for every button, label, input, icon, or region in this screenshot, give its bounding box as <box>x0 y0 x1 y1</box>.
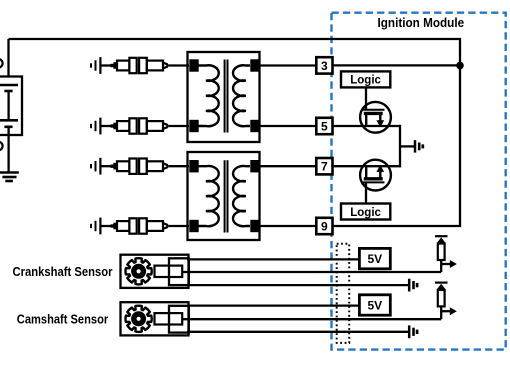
wire top rail <box>9 39 461 65</box>
module ground symbol <box>414 140 417 152</box>
wire spark plug 1 to ignition coil <box>169 64 189 66</box>
resistor R1 lead to signal wire <box>440 260 442 272</box>
spark plug 3 ground <box>90 164 92 168</box>
wire common rail to ground tap <box>400 145 415 147</box>
svg-text:5V: 5V <box>367 298 382 312</box>
svg-text:9: 9 <box>321 219 328 233</box>
pin 5 terminal box <box>316 118 332 134</box>
svg-text:3: 3 <box>321 59 328 73</box>
pin 7 terminal box <box>316 158 332 174</box>
battery ground symbol <box>0 171 19 174</box>
resistor R2 supply bar <box>435 282 448 284</box>
wire spark plug 3 to ignition coil <box>169 165 189 167</box>
spark plug 1 body <box>111 64 114 67</box>
transistor Q2 gate lead <box>365 182 367 204</box>
ignition coil T2 terminal bottom-right <box>250 220 259 232</box>
ignition coil T1 terminal bottom-right <box>250 120 259 132</box>
svg-text:Logic: Logic <box>350 75 381 87</box>
logic block upper <box>341 71 390 87</box>
ignition coil T1 core <box>224 60 226 133</box>
5V supply box camshaft <box>359 295 390 315</box>
transistor Q1 <box>360 102 391 133</box>
camshaft sensor connector blade <box>155 313 183 324</box>
ignition coil T2 terminal top-right <box>250 160 259 172</box>
5V supply box crankshaft <box>359 248 390 268</box>
wire coil T1 secondary bottom to pin 5 <box>260 125 317 127</box>
ignition coil T2 terminal bottom-left <box>189 220 198 232</box>
wire battery positive to top rail <box>7 39 9 77</box>
wire Q1 to Q2 common emitter rail <box>399 125 401 168</box>
resistor R1 supply arrow <box>437 237 446 243</box>
camshaft sensor case <box>121 302 189 335</box>
crankshaft sensor connector shell <box>169 258 189 285</box>
wire camshaft sensor signal <box>182 318 441 320</box>
transistor Q1 gate lead <box>365 87 367 110</box>
spark plug 4 body <box>111 224 114 227</box>
resistor R2 supply arrow <box>437 284 446 290</box>
wire right rail down to pin 9 <box>333 65 461 226</box>
ignition coil T2 secondary winding <box>233 166 250 226</box>
wire crankshaft sensor supply <box>187 258 359 260</box>
junction node at top rail <box>456 62 464 70</box>
crankshaft sensor connector blade <box>155 266 183 277</box>
logic block lower <box>341 204 390 220</box>
battery negative terminal circle <box>0 142 3 151</box>
pin 9 terminal box <box>316 218 332 234</box>
spark plug 2 ground <box>90 124 92 128</box>
battery positive terminal circle <box>0 59 3 68</box>
battery cell 1 long plate <box>0 84 18 87</box>
battery cell 2 long plate <box>0 119 18 122</box>
wire battery negative to ground <box>7 135 9 173</box>
resistor R2 lead to signal wire <box>440 306 442 319</box>
wire pin 5 to transistor Q1 <box>333 125 401 127</box>
wire camshaft sensor return <box>187 331 409 333</box>
ignition coil T2 case <box>188 152 260 240</box>
camshaft sensor return ground symbol <box>408 325 411 338</box>
battery cell 2 short plate <box>4 126 12 129</box>
wire coil T1 secondary top to pin 3 <box>260 64 317 66</box>
svg-text:Ignition Module: Ignition Module <box>378 15 465 30</box>
camshaft sensor connector shell <box>169 306 189 333</box>
svg-text:5V: 5V <box>367 252 382 266</box>
wire coil T2 secondary bottom to pin 9 <box>260 225 317 227</box>
battery cell 1 short plate <box>4 90 12 93</box>
ignition coil T1 terminal bottom-left <box>189 120 198 132</box>
svg-text:Camshaft Sensor: Camshaft Sensor <box>17 311 108 326</box>
ignition coil T2 primary winding <box>198 166 219 226</box>
wire pin 3 to right rail <box>333 64 461 66</box>
svg-text:7: 7 <box>321 160 328 174</box>
resistor R1 supply bar <box>435 235 448 237</box>
wire crankshaft sensor return <box>187 284 409 286</box>
crankshaft sensor return ground symbol <box>408 279 411 292</box>
ignition coil T2 core <box>224 160 226 232</box>
wire spark plug 4 to ignition coil <box>169 225 189 227</box>
wire spark plug 2 to ignition coil <box>169 125 189 127</box>
signal output arrow 1 <box>441 263 450 265</box>
wire coil T2 secondary top to pin 7 <box>260 165 317 167</box>
ignition coil T1 terminal top-right <box>250 59 259 71</box>
spark plug 3 body <box>111 165 114 168</box>
ignition coil T1 case <box>188 52 260 142</box>
ignition coil T2 terminal top-left <box>189 160 198 172</box>
svg-text:Crankshaft Sensor: Crankshaft Sensor <box>13 264 113 279</box>
crankshaft sensor case <box>121 255 189 288</box>
wire crankshaft sensor signal <box>182 271 441 273</box>
pin 3 terminal box <box>316 57 332 73</box>
svg-text:Logic: Logic <box>350 207 381 219</box>
crankshaft sensor reluctor gear <box>126 258 152 284</box>
camshaft sensor reluctor gear <box>126 306 152 332</box>
resistor R1 <box>438 244 445 261</box>
battery case box <box>0 77 22 136</box>
ignition module boundary box <box>332 13 506 350</box>
ignition coil T1 primary winding <box>198 65 219 126</box>
transistor Q2 <box>360 160 391 191</box>
wire camshaft sensor supply <box>187 304 359 306</box>
battery cell 2 stem <box>7 127 9 135</box>
spark plug 2 body <box>111 124 114 127</box>
svg-text:5: 5 <box>321 119 328 133</box>
resistor R2 <box>438 290 445 307</box>
ignition coil T1 terminal top-left <box>189 59 198 71</box>
spark plug 1 ground <box>90 63 92 67</box>
spark plug 4 ground <box>90 224 92 228</box>
battery cell 1 stem <box>7 91 9 120</box>
sensor harness pass-through connector (dotted) <box>337 244 350 343</box>
signal output arrow 2 <box>441 310 450 312</box>
ignition coil T1 secondary winding <box>233 65 250 126</box>
wire pin 7 to transistor Q2 <box>333 165 401 167</box>
